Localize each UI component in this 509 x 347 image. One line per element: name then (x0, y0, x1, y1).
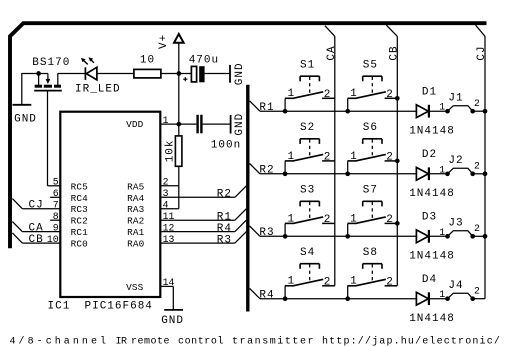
svg-text:2: 2 (324, 277, 332, 289)
svg-text:RC0: RC0 (71, 239, 89, 250)
svg-text:D2: D2 (422, 149, 437, 161)
svg-text:CB: CB (388, 45, 400, 60)
svg-text:1: 1 (288, 151, 296, 163)
svg-text:GND: GND (234, 113, 246, 136)
svg-text:2: 2 (474, 286, 480, 297)
svg-text:5: 5 (53, 177, 59, 188)
svg-text:1: 1 (288, 276, 296, 288)
svg-text:PIC16F684: PIC16F684 (85, 300, 153, 312)
svg-text:R1: R1 (217, 211, 232, 223)
svg-text:1N4148: 1N4148 (409, 251, 455, 263)
svg-text:BS170: BS170 (32, 57, 70, 69)
svg-text:2: 2 (324, 89, 332, 101)
svg-text:RC5: RC5 (71, 181, 89, 192)
svg-text:S3: S3 (300, 185, 315, 197)
svg-text:2: 2 (324, 214, 332, 226)
svg-text:J3: J3 (448, 217, 463, 229)
svg-text:R2: R2 (259, 164, 274, 176)
svg-text:S8: S8 (363, 247, 378, 259)
svg-text:GND: GND (14, 114, 37, 126)
svg-text:R1: R1 (259, 102, 274, 114)
svg-text:1: 1 (350, 276, 358, 288)
svg-text:transmitter: transmitter (232, 336, 315, 347)
svg-text:R3: R3 (217, 234, 232, 246)
svg-text:RA2: RA2 (127, 216, 144, 227)
svg-text:D3: D3 (422, 212, 437, 224)
svg-text:7: 7 (53, 200, 59, 211)
svg-text:470u: 470u (189, 54, 219, 66)
svg-text:9: 9 (53, 222, 59, 233)
svg-text:J1: J1 (448, 92, 463, 104)
svg-text:RC4: RC4 (71, 193, 89, 204)
svg-text:CB: CB (29, 234, 44, 246)
svg-text:remote: remote (131, 337, 170, 347)
svg-text:4/8-channel: 4/8-channel (10, 336, 110, 347)
svg-text:RA5: RA5 (127, 181, 145, 192)
svg-text:J4: J4 (448, 280, 463, 292)
svg-text:IC1: IC1 (48, 300, 71, 312)
svg-text:14: 14 (163, 277, 175, 288)
svg-text:RA0: RA0 (127, 239, 145, 250)
svg-text:CA: CA (29, 223, 44, 235)
svg-text:RC1: RC1 (71, 227, 89, 238)
svg-text:S1: S1 (300, 59, 315, 71)
svg-text:S2: S2 (300, 122, 315, 134)
svg-text:S6: S6 (363, 122, 378, 134)
svg-text:J2: J2 (448, 155, 463, 167)
svg-text:2: 2 (386, 89, 394, 101)
svg-text:S7: S7 (363, 185, 378, 197)
svg-text:1N4148: 1N4148 (409, 313, 455, 325)
svg-text:control: control (178, 336, 224, 347)
svg-text:1N4148: 1N4148 (409, 188, 455, 200)
svg-text:V+: V+ (158, 34, 170, 49)
svg-text:R2: R2 (217, 189, 232, 201)
svg-text:CJ: CJ (476, 45, 488, 60)
svg-text:IR: IR (116, 337, 128, 347)
svg-text:2: 2 (386, 214, 394, 226)
svg-text:http://jap.hu/electronic/: http://jap.hu/electronic/ (322, 336, 501, 347)
svg-text:2: 2 (386, 277, 394, 289)
svg-text:1: 1 (350, 213, 358, 225)
svg-text:RC2: RC2 (71, 216, 88, 227)
svg-text:2: 2 (474, 98, 480, 109)
svg-text:1: 1 (439, 289, 445, 300)
svg-text:2: 2 (474, 161, 480, 172)
svg-text:VSS: VSS (126, 282, 144, 293)
svg-text:CJ: CJ (29, 200, 44, 212)
svg-text:10: 10 (140, 54, 155, 66)
svg-text:2: 2 (324, 152, 332, 164)
svg-text:6: 6 (53, 188, 59, 199)
svg-text:2: 2 (474, 223, 480, 234)
svg-text:RA1: RA1 (127, 227, 145, 238)
svg-text:1: 1 (350, 151, 358, 163)
svg-text:R4: R4 (259, 289, 274, 301)
svg-text:S4: S4 (300, 247, 315, 259)
svg-text:1: 1 (288, 213, 296, 225)
svg-text:S5: S5 (363, 59, 378, 71)
svg-text:100n: 100n (211, 139, 241, 151)
svg-text:8: 8 (53, 211, 59, 222)
svg-text:1: 1 (439, 227, 445, 238)
svg-text:CA: CA (326, 45, 338, 60)
svg-text:IR_LED: IR_LED (75, 83, 121, 95)
svg-text:D4: D4 (422, 274, 437, 286)
svg-text:1: 1 (439, 164, 445, 175)
svg-text:RC3: RC3 (71, 204, 89, 215)
svg-text:R4: R4 (217, 223, 232, 235)
svg-text:1N4148: 1N4148 (409, 126, 455, 138)
svg-text:1: 1 (163, 115, 169, 126)
svg-text:R3: R3 (259, 227, 274, 239)
svg-text:VDD: VDD (126, 119, 144, 130)
svg-text:1: 1 (350, 88, 358, 100)
svg-text:GND: GND (234, 62, 246, 85)
svg-text:RA4: RA4 (127, 193, 145, 204)
svg-text:10k: 10k (165, 139, 177, 162)
svg-text:RA3: RA3 (127, 204, 145, 215)
svg-text:1: 1 (288, 88, 296, 100)
svg-text:D1: D1 (422, 87, 437, 99)
svg-text:2: 2 (386, 152, 394, 164)
svg-text:10: 10 (47, 234, 59, 245)
svg-text:GND: GND (161, 315, 184, 327)
svg-text:1: 1 (439, 102, 445, 113)
